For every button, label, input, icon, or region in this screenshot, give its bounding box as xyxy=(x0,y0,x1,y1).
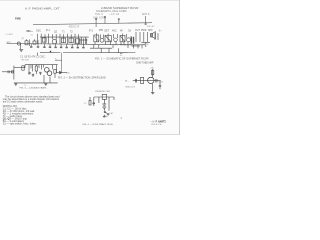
svg-text:PHILA. PA.: PHILA. PA. xyxy=(151,123,162,126)
svg-text:455 KC IF: 455 KC IF xyxy=(69,27,80,29)
svg-text:C1 .05 R1 47K L1 OSC.: C1 .05 R1 47K L1 OSC. xyxy=(20,56,46,59)
svg-text:ONE-TUBE AMP: ONE-TUBE AMP xyxy=(136,62,154,65)
svg-text:PWR: PWR xyxy=(141,30,147,32)
svg-text:L1 ANT: L1 ANT xyxy=(6,33,14,36)
svg-text:are 1/2 watt unless otherwise: are 1/2 watt unless otherwise noted. xyxy=(3,101,43,104)
svg-text:PULLEY: PULLEY xyxy=(147,26,156,28)
svg-text:SPK: SPK xyxy=(148,30,153,32)
svg-text:FMB: FMB xyxy=(15,16,21,20)
svg-text:FIG. 1 — SCHEMATIC OF SUPERHET: FIG. 1 — SCHEMATIC OF SUPERHET RCVR. xyxy=(95,57,150,61)
svg-text:IF-2: IF-2 xyxy=(89,31,94,33)
svg-text:ANT: ANT xyxy=(7,41,12,44)
svg-text:8Ω: 8Ω xyxy=(67,73,70,75)
svg-text:OSC: OSC xyxy=(36,31,41,33)
svg-text:A. F. PHONO-AMPL. CKT: A. F. PHONO-AMPL. CKT xyxy=(25,7,60,11)
svg-text:OUT: OUT xyxy=(135,30,140,32)
svg-text:R5 10K: R5 10K xyxy=(22,59,30,61)
svg-text:SPKR: SPKR xyxy=(143,44,149,46)
svg-text:OUT: OUT xyxy=(159,81,164,83)
svg-text:+9V: +9V xyxy=(150,67,154,69)
svg-text:—1.5: —1.5 xyxy=(109,13,115,16)
svg-text:S1 — spst switch; misc. hdwe.: S1 — spst switch; misc. hdwe. xyxy=(3,123,37,126)
svg-text:DET: DET xyxy=(105,31,110,33)
svg-text:FIG. 2 — B+ DISTRIBUTION, SPKR: FIG. 2 — B+ DISTRIBUTION, SPKR LEAD xyxy=(58,76,106,79)
svg-text:ANT. C: ANT. C xyxy=(142,13,150,16)
svg-text:AVC: AVC xyxy=(112,30,117,33)
svg-text:TUN. C: TUN. C xyxy=(95,13,103,16)
svg-text:FIG. 4 — CODE PRACT. MON.: FIG. 4 — CODE PRACT. MON. xyxy=(83,123,114,126)
svg-text:IF-1: IF-1 xyxy=(46,30,51,32)
svg-text:GND LUG: GND LUG xyxy=(125,87,135,89)
svg-text:CW MON. OSC: CW MON. OSC xyxy=(95,91,111,93)
svg-text:MIX—: MIX— xyxy=(27,31,34,33)
svg-text:KEY: KEY xyxy=(110,113,115,115)
